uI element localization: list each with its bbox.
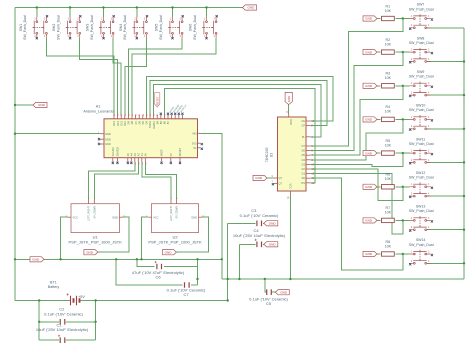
- svg-text:B7: B7: [166, 120, 170, 124]
- svg-text:D13: D13: [112, 120, 116, 125]
- svg-text:SW1: SW1: [19, 24, 23, 32]
- svg-text:3: 3: [428, 251, 430, 253]
- svg-text:SW3: SW3: [86, 24, 90, 32]
- wire U2 VCC drop: [142, 217, 149, 259]
- svg-text:2: 2: [411, 59, 413, 61]
- capacitor C4 10uF: [255, 239, 262, 247]
- node bus junction SW6: [205, 6, 207, 8]
- node right bus junction: [463, 128, 465, 130]
- wire U2 GND to tag: [176, 217, 208, 252]
- wire C4 row left: [239, 243, 255, 245]
- svg-text:3: 3: [428, 50, 430, 52]
- svg-text:1: 1: [34, 18, 36, 20]
- svg-text:UP_DOWN: UP_DOWN: [93, 206, 96, 219]
- svg-text:4: 4: [428, 261, 430, 263]
- node row7 junction: [402, 219, 404, 221]
- svg-text:4: 4: [428, 227, 430, 229]
- op-amp U A1 Arduino_Leonardo MCU: [83, 104, 203, 164]
- svg-text:GND: GND: [105, 137, 111, 141]
- svg-text:D6: D6: [137, 120, 141, 124]
- ground GND at C3: [264, 221, 278, 226]
- svg-text:10uF ('25V 10uF' Electrolytic): 10uF ('25V 10uF' Electrolytic): [36, 327, 89, 332]
- node U1 VCC / H1: [59, 258, 61, 260]
- svg-text:4: 4: [171, 198, 173, 200]
- wire U1 VCC drop: [61, 217, 68, 259]
- svg-text:SW13: SW13: [416, 205, 426, 209]
- ground GND on H1: [30, 257, 44, 262]
- svg-text:D3: D3: [302, 162, 306, 166]
- svg-text:LEFT_RIGHT: LEFT_RIGHT: [88, 206, 91, 222]
- svg-text:R4: R4: [385, 105, 390, 109]
- node row5 junction: [402, 152, 404, 154]
- wire row1 resistor to switch: [395, 18, 409, 20]
- node C2 right: [94, 321, 96, 323]
- wire row3 to 165 D5: [310, 86, 402, 155]
- wire C3 row right: [262, 222, 265, 224]
- node bus junction SW1: [36, 6, 38, 8]
- switch SW13 (right column): [409, 205, 434, 232]
- svg-text:10K: 10K: [385, 9, 392, 13]
- wire row8 to 165 D0: [310, 178, 402, 270]
- svg-text:3: 3: [428, 16, 430, 18]
- svg-text:0.1uF ('10V' Ceramic): 0.1uF ('10V' Ceramic): [240, 213, 279, 218]
- wire MCU A3 to U1: [89, 162, 135, 200]
- ground GND top right: [243, 5, 257, 10]
- svg-text:3: 3: [428, 218, 430, 220]
- wire MCU to 165 PL pin1: [154, 85, 321, 137]
- node right bus junction: [463, 229, 465, 231]
- svg-text:GND: GND: [32, 258, 40, 262]
- svg-text:3: 3: [428, 117, 430, 119]
- switch SW4 (top row): [119, 15, 148, 40]
- wire row5 switch to +5V bus: [427, 161, 464, 163]
- svg-text:5V: 5V: [193, 146, 196, 150]
- ground GND row3: [363, 83, 377, 88]
- wire row6 to 165 D2: [310, 169, 402, 200]
- svg-text:SW_Push_Dual: SW_Push_Dual: [123, 15, 127, 40]
- svg-text:GND: GND: [365, 151, 373, 155]
- ground GND row6: [363, 184, 377, 189]
- svg-text:GND: GND: [289, 119, 293, 125]
- svg-text:4: 4: [428, 193, 430, 195]
- svg-text:16: 16: [287, 197, 290, 200]
- wire left GND rail: [14, 8, 16, 301]
- wire C7 right: [191, 284, 197, 286]
- svg-text:B4: B4: [155, 120, 159, 124]
- svg-text:4: 4: [77, 36, 79, 38]
- wire C5 drop: [265, 279, 266, 292]
- wire MCU A2 to U1: [94, 162, 138, 200]
- node row4 junction: [402, 118, 404, 120]
- switch SW7 (right column): [409, 3, 434, 30]
- resistor R6: [382, 173, 395, 189]
- svg-text:D11: D11: [119, 120, 123, 125]
- svg-text:SW10: SW10: [416, 104, 426, 108]
- resistor R3: [382, 72, 395, 88]
- svg-text:1: 1: [411, 151, 413, 153]
- node battery plus corner: [227, 299, 229, 301]
- svg-text:GND: GND: [287, 96, 291, 102]
- svg-text:3V3: 3V3: [192, 141, 197, 145]
- svg-text:3: 3: [44, 18, 46, 20]
- svg-text:5V: 5V: [169, 153, 173, 156]
- svg-text:GND: GND: [165, 250, 173, 254]
- svg-text:1: 1: [411, 83, 413, 85]
- svg-text:D0: D0: [302, 176, 306, 180]
- wire bus drop to SW4: [136, 8, 138, 18]
- node left rail / gnd tag: [14, 104, 16, 106]
- wire SW4 to MCU: [125, 38, 147, 115]
- ground GND row2: [363, 50, 377, 55]
- wire SW2 to MCU: [80, 38, 118, 115]
- svg-text:1: 1: [68, 18, 70, 20]
- node U2 VCC / H1: [140, 258, 142, 260]
- wire MCU to 165 CP pin2: [150, 81, 327, 126]
- svg-text:4: 4: [180, 36, 182, 38]
- node C2 left: [38, 321, 40, 323]
- svg-text:D1: D1: [302, 172, 306, 176]
- wire top GND bus: [15, 7, 243, 9]
- wire C3/+5V vertical: [227, 223, 229, 300]
- node right bus junction: [463, 161, 465, 163]
- svg-text:C6: C6: [155, 275, 161, 280]
- svg-text:A1: A1: [140, 153, 144, 157]
- wire bus drop to SW1: [36, 8, 38, 18]
- svg-text:VCC: VCC: [73, 215, 79, 219]
- ground GND at C4: [264, 242, 278, 247]
- svg-text:2: 2: [411, 25, 413, 27]
- svg-text:SW_Push_Dual: SW_Push_Dual: [409, 243, 434, 247]
- node battery left rail: [38, 299, 40, 301]
- svg-text:Q7: Q7: [279, 176, 283, 180]
- node battery right rail: [94, 299, 96, 301]
- svg-text:R5: R5: [385, 139, 390, 143]
- svg-text:Q7: Q7: [279, 182, 283, 186]
- ground GND under U2: [162, 250, 176, 255]
- wire bus drop to SW2: [69, 8, 71, 18]
- wire row2 resistor to switch: [395, 51, 409, 53]
- node row1 junction: [402, 17, 404, 19]
- wire +5V horizontal rail H2: [222, 278, 464, 280]
- svg-text:SDA/D2: SDA/D2: [116, 146, 120, 156]
- svg-text:1: 1: [411, 16, 413, 18]
- node C5 / H2: [264, 278, 266, 280]
- resistor R4: [382, 105, 395, 121]
- svg-text:VCC: VCC: [288, 184, 292, 190]
- wire C4 riser: [238, 244, 240, 279]
- svg-text:4: 4: [428, 126, 430, 128]
- switch SW10 (right column): [409, 104, 434, 131]
- svg-text:D10: D10: [123, 120, 127, 125]
- wire row2 tag to resistor: [377, 51, 380, 53]
- wire C6 left riser: [137, 259, 155, 266]
- ground GND left of U3: [253, 175, 267, 180]
- svg-text:4: 4: [144, 36, 146, 38]
- svg-text:VIN: VIN: [192, 131, 196, 135]
- switch SW14 (right column): [409, 238, 434, 265]
- svg-text:GND: GND: [38, 103, 46, 107]
- wire C2 row right: [66, 321, 95, 323]
- svg-text:D5: D5: [302, 153, 306, 157]
- switch SW12 (right column): [409, 171, 434, 198]
- svg-text:SW7: SW7: [417, 3, 425, 7]
- node right bus junction: [463, 60, 465, 62]
- svg-text:1: 1: [411, 117, 413, 119]
- svg-text:10K: 10K: [385, 143, 392, 147]
- svg-text:SW6: SW6: [189, 24, 193, 32]
- capacitor C1 10uF: [58, 335, 65, 343]
- svg-text:SW_Push_Dual: SW_Push_Dual: [193, 15, 197, 40]
- node row8 junction: [402, 253, 404, 255]
- wire stub to GND tag left: [15, 104, 33, 106]
- resistor R5: [382, 139, 395, 155]
- wire row4 switch to +5V bus: [427, 128, 464, 130]
- svg-text:10uF ('25V 10uF' Electrolytic): 10uF ('25V 10uF' Electrolytic): [233, 233, 286, 238]
- svg-text:3: 3: [428, 151, 430, 153]
- resistor R8: [382, 240, 395, 256]
- svg-text:26: 26: [136, 113, 138, 116]
- ground GND row1: [363, 16, 377, 21]
- svg-text:A1: A1: [96, 105, 101, 109]
- node right bus junction: [463, 262, 465, 264]
- svg-text:C7: C7: [183, 292, 189, 297]
- wire row7 resistor to switch: [395, 219, 409, 221]
- svg-text:8: 8: [286, 111, 288, 114]
- wire row4 to 165 D4: [310, 120, 402, 160]
- ground GND row8: [363, 251, 377, 256]
- svg-text:GND: GND: [86, 250, 94, 254]
- svg-text:2: 2: [411, 261, 413, 263]
- svg-text:SW11: SW11: [416, 137, 425, 141]
- wire bus drop to SW3: [103, 8, 105, 18]
- ground GND left rail: [33, 102, 47, 107]
- svg-text:SCL/D3: SCL/D3: [111, 147, 115, 157]
- capacitor C6 47uF: [155, 261, 162, 269]
- svg-text:AREF: AREF: [160, 149, 164, 156]
- svg-text:A4: A4: [130, 153, 134, 157]
- wire row3 tag to resistor: [377, 85, 380, 87]
- wire row5 resistor to switch: [395, 152, 409, 154]
- svg-text:4: 4: [214, 36, 216, 38]
- switch SW6 (top row): [189, 15, 218, 40]
- wire C1 row right: [66, 339, 95, 341]
- wire battery left rail: [38, 301, 40, 341]
- switch SW8 (right column): [409, 36, 434, 63]
- svg-text:SW2: SW2: [52, 24, 56, 32]
- wire SW3 to MCU: [113, 38, 121, 115]
- svg-text:R2: R2: [385, 38, 390, 42]
- svg-text:4: 4: [428, 160, 430, 162]
- svg-text:SW_Push_Dual: SW_Push_Dual: [409, 209, 434, 213]
- svg-text:R3: R3: [385, 72, 390, 76]
- node left rail / H1: [14, 258, 16, 260]
- svg-text:SW_Push_Dual: SW_Push_Dual: [409, 176, 434, 180]
- node right bus junction: [463, 195, 465, 197]
- wire bus drop to SW5: [172, 8, 174, 18]
- wire horizontal rail H1: [15, 258, 222, 260]
- svg-text:10K: 10K: [385, 110, 392, 114]
- wire row2 to 165 D6: [310, 52, 402, 151]
- svg-text:+5V: +5V: [78, 295, 85, 299]
- svg-text:3: 3: [111, 18, 113, 20]
- wire battery right rail: [95, 301, 97, 341]
- switch SW11 (right column): [409, 137, 434, 164]
- ground GND row7: [363, 218, 377, 223]
- svg-text:UP_DOWN: UP_DOWN: [176, 206, 179, 219]
- node left rail / mcu gnd: [14, 133, 16, 135]
- svg-text:SW12: SW12: [416, 171, 426, 175]
- svg-text:D4: D4: [302, 158, 306, 162]
- svg-text:4: 4: [94, 198, 96, 200]
- switch SW2 (top row): [52, 15, 81, 40]
- svg-text:D9: D9: [127, 120, 131, 124]
- op-amp U3 74HC165 shift register: [265, 111, 315, 200]
- svg-text:1: 1: [204, 18, 206, 20]
- joystick U2 PSP_JSTK: [146, 198, 204, 244]
- wire C7 left: [116, 259, 182, 285]
- wire row6 resistor to switch: [395, 186, 409, 188]
- joystick U1 PSP_JSTK: [66, 198, 126, 244]
- switch SW3 (top row): [86, 15, 115, 40]
- wire MCU VIN to +5V rail: [201, 133, 222, 279]
- svg-text:Arduino_Leonardo: Arduino_Leonardo: [83, 110, 113, 114]
- svg-text:SW5: SW5: [155, 24, 159, 32]
- svg-text:D5: D5: [141, 120, 145, 124]
- node +5V vert / H2: [227, 278, 229, 280]
- svg-text:0.1uF ('10V' Ceramic): 0.1uF ('10V' Ceramic): [44, 311, 83, 316]
- svg-text:3: 3: [214, 18, 216, 20]
- node bus junction SW3: [102, 6, 104, 8]
- node bus junction SW4: [136, 6, 138, 8]
- svg-text:10K: 10K: [385, 76, 392, 80]
- svg-text:Battery: Battery: [48, 285, 60, 289]
- capacitor C7 0.1uF: [185, 282, 190, 288]
- svg-text:RESET: RESET: [155, 96, 159, 105]
- svg-text:1: 1: [170, 18, 172, 20]
- wire MCU to 165 CE pin15: [146, 77, 333, 122]
- node bus junction SW5: [171, 6, 173, 8]
- svg-text:4: 4: [428, 25, 430, 27]
- svg-text:A3: A3: [133, 153, 137, 157]
- wire row7 switch to +5V bus: [427, 229, 464, 231]
- svg-text:GND: GND: [105, 132, 111, 136]
- wire MCU GND pin to left rail: [15, 133, 100, 135]
- node H1 end / VIN rail: [221, 258, 223, 260]
- wire row7 tag to resistor: [377, 219, 380, 221]
- wire row5 to 165 D3: [310, 153, 402, 167]
- wire C6 right: [164, 266, 198, 268]
- svg-text:D12: D12: [116, 120, 120, 125]
- resistor R1: [382, 4, 395, 20]
- node bus junction SW2: [69, 6, 71, 8]
- wire MCU A1 to U2: [142, 162, 171, 200]
- wire battery plus wire: [81, 300, 228, 302]
- svg-text:R7: R7: [385, 206, 390, 210]
- svg-text:2: 2: [411, 160, 413, 162]
- capacitor C2 0.1uF: [60, 319, 65, 325]
- wire 165 pin9 to GND tag: [267, 177, 274, 179]
- svg-text:4: 4: [44, 36, 46, 38]
- wire SW1 to MCU: [46, 38, 114, 115]
- wire C5 to tag: [272, 291, 275, 293]
- svg-text:2: 2: [411, 193, 413, 195]
- node C6 left / H1: [136, 258, 138, 260]
- svg-text:4: 4: [111, 36, 113, 38]
- svg-text:CP: CP: [301, 124, 305, 128]
- svg-text:R8: R8: [385, 240, 390, 244]
- node C4 / H2: [238, 278, 240, 280]
- node C7 riser / H2: [196, 278, 198, 280]
- svg-text:D6: D6: [302, 149, 306, 153]
- node row3 junction: [402, 85, 404, 87]
- wire row7 to 165 D1: [310, 174, 402, 234]
- resistor R7: [382, 206, 395, 222]
- svg-text:GND: GND: [365, 84, 373, 88]
- wire row8 switch to +5V bus: [427, 262, 464, 264]
- wire bus drop to SW6: [206, 8, 208, 18]
- switch SW9 (right column): [409, 70, 434, 97]
- svg-text:GND: GND: [269, 243, 277, 247]
- wire C2 row left: [39, 321, 59, 323]
- svg-text:GND: GND: [365, 17, 373, 21]
- svg-text:74HC165: 74HC165: [265, 148, 269, 163]
- svg-text:1: 1: [101, 18, 103, 20]
- wire row2 switch to +5V bus: [427, 61, 464, 63]
- wire row5 tag to resistor: [377, 152, 380, 154]
- wire C6/C7 riser: [197, 259, 199, 285]
- svg-text:A2: A2: [137, 153, 141, 157]
- svg-text:3: 3: [428, 184, 430, 186]
- svg-text:PSP_JSTK_PSP_1000_JSTK: PSP_JSTK_PSP_1000_JSTK: [69, 239, 123, 244]
- svg-text:SW14: SW14: [416, 238, 426, 242]
- wire row3 switch to +5V bus: [427, 94, 464, 96]
- node row2 junction: [402, 51, 404, 53]
- svg-text:GND: GND: [247, 6, 255, 10]
- svg-text:TX/D1: TX/D1: [148, 120, 152, 128]
- svg-text:GND: GND: [365, 252, 373, 256]
- wire 165 VCC to +5V rail: [289, 195, 291, 279]
- svg-text:GND: GND: [280, 290, 288, 294]
- node C7 / H1: [115, 258, 117, 260]
- svg-text:A5: A5: [126, 153, 130, 157]
- svg-text:D0/RX: D0/RX: [152, 121, 156, 129]
- svg-text:GND: GND: [105, 142, 111, 146]
- svg-text:D8: D8: [130, 120, 134, 124]
- switch SW1 (top row): [19, 15, 48, 40]
- switch SW5 (top row): [155, 15, 184, 40]
- ground GND row5: [363, 151, 377, 156]
- svg-text:10K: 10K: [385, 211, 392, 215]
- svg-text:SW_Push_Dual: SW_Push_Dual: [57, 15, 61, 40]
- svg-text:DS: DS: [301, 181, 305, 185]
- svg-text:1: 1: [411, 50, 413, 52]
- node C6 riser / H1: [196, 258, 198, 260]
- svg-text:1: 1: [411, 251, 413, 253]
- svg-text:SW_Push_Dual: SW_Push_Dual: [409, 142, 434, 146]
- svg-text:D4: D4: [145, 120, 149, 124]
- svg-text:SW_Push_Dual: SW_Push_Dual: [409, 41, 434, 45]
- svg-text:SW9: SW9: [417, 70, 425, 74]
- wire U1 GND to tag: [98, 217, 129, 252]
- svg-text:GND: GND: [269, 222, 277, 226]
- svg-text:RESET: RESET: [178, 147, 182, 156]
- wire row1 switch to +5V bus: [427, 27, 464, 29]
- svg-text:PL: PL: [302, 135, 306, 139]
- battery BT1: [48, 281, 81, 306]
- svg-text:1: 1: [411, 218, 413, 220]
- svg-text:4: 4: [88, 198, 90, 200]
- svg-text:GND: GND: [191, 215, 197, 219]
